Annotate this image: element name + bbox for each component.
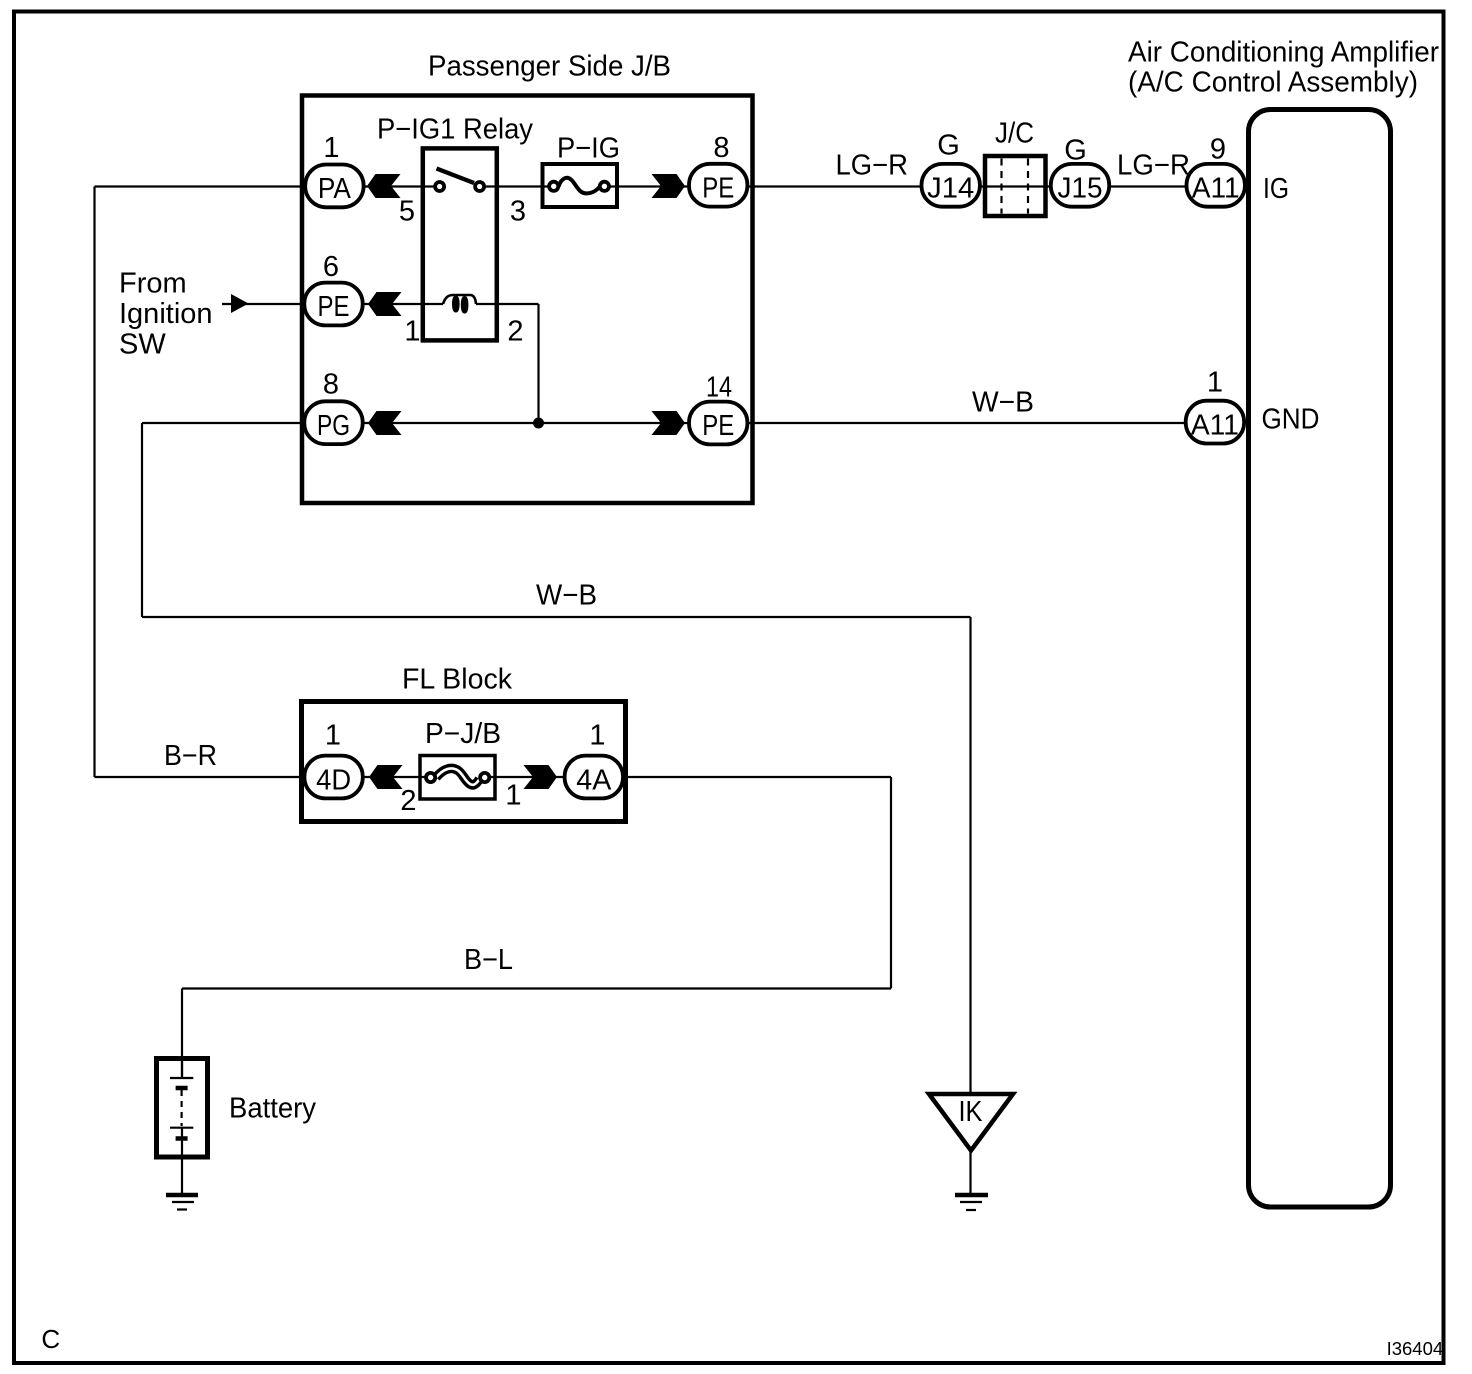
wire fuse P-IG to PE pin8 [608, 185, 690, 187]
svg-text:B−L: B−L [464, 944, 513, 976]
svg-text:1: 1 [589, 720, 605, 752]
IK ground symbol [955, 1193, 988, 1198]
wire B-R net: PA pin1 left, down left side, to FL block 4D [95, 187, 321, 778]
wire from ignition SW to PE pin6 [222, 303, 310, 305]
battery cell plates [170, 1059, 193, 1079]
J/C dashed internals [1002, 159, 1029, 214]
svg-text:LG−R: LG−R [836, 150, 909, 182]
svg-text:14: 14 [706, 372, 732, 404]
relay P-IG1 box [423, 148, 497, 340]
svg-text:J/C: J/C [995, 118, 1034, 150]
connector oval 4A pin1 [565, 756, 623, 799]
svg-text:A11: A11 [1192, 173, 1240, 205]
wire LG-R: PE pin8 to J14 [748, 185, 925, 187]
svg-text:LG−R: LG−R [1117, 150, 1190, 182]
svg-text:PE: PE [318, 291, 350, 323]
svg-text:3: 3 [510, 196, 526, 228]
svg-text:A11: A11 [1191, 410, 1239, 442]
fusible link P-J/B element ribbon [436, 768, 480, 784]
svg-text:1: 1 [505, 780, 521, 812]
fuse P-IG box [543, 164, 618, 207]
wire B-L: 4A right, down, left to battery [182, 777, 891, 1078]
svg-text:P−J/B: P−J/B [425, 718, 501, 750]
svg-text:SW: SW [119, 329, 166, 361]
wire through J/C: J14 to J15 [980, 185, 1052, 187]
svg-text:4A: 4A [576, 765, 612, 797]
svg-text:9: 9 [1210, 134, 1226, 166]
wire PG to PE pin14 [363, 422, 688, 424]
svg-text:From: From [119, 268, 187, 300]
wire PG pin8 left, down to W-B row [142, 423, 310, 617]
wire W-B net to IK ground [142, 617, 971, 1096]
battery ground symbol [166, 1193, 198, 1198]
wire 4D to P-J/B fuse [362, 776, 428, 778]
arrow into 4A (right-pointing) [524, 765, 558, 789]
wire PE pin6 to relay coil pin1 [363, 303, 443, 305]
junction connector J/C box [985, 156, 1046, 216]
svg-text:J14: J14 [927, 173, 974, 205]
svg-text:Passenger Side J/B: Passenger Side J/B [428, 51, 671, 83]
svg-text:1: 1 [325, 720, 341, 752]
svg-text:P−IG: P−IG [557, 133, 620, 165]
svg-text:GND: GND [1262, 403, 1320, 435]
connector oval PE pin6 [304, 283, 362, 326]
svg-text:1: 1 [404, 316, 420, 348]
svg-text:4D: 4D [316, 765, 351, 797]
connector oval PG pin8 [304, 401, 362, 444]
svg-text:G: G [1064, 135, 1087, 167]
svg-text:P−IG1 Relay: P−IG1 Relay [377, 114, 533, 146]
svg-text:1: 1 [1207, 367, 1223, 399]
wire main IG row: PA to relay switch [365, 185, 435, 187]
wire relay pin3 to fuse P-IG [484, 185, 550, 187]
svg-text:W−B: W−B [972, 387, 1034, 419]
fuse P-IG element [559, 178, 600, 194]
svg-text:Battery: Battery [229, 1093, 316, 1125]
FL Block box [302, 702, 626, 822]
wire W-B: PE pin14 to A11 pin1 GND [748, 422, 1187, 424]
svg-text:2: 2 [507, 316, 523, 348]
connector oval 4D pin1 [304, 756, 362, 799]
svg-text:6: 6 [323, 251, 339, 283]
connector oval PA pin1 [305, 165, 363, 208]
svg-text:C: C [41, 1324, 60, 1354]
connector oval A11 pin9 [1187, 164, 1245, 207]
battery box [157, 1059, 208, 1158]
connector oval J14 [922, 164, 980, 207]
relay coil [443, 295, 476, 304]
relay switch contacts and lever [437, 169, 475, 184]
arrow into PA (left-pointing) [367, 174, 401, 198]
arrow into PE pin6 (left-pointing) [368, 292, 402, 316]
svg-text:G: G [937, 130, 960, 162]
wire battery negative to ground [181, 1138, 183, 1193]
svg-text:(A/C Control Assembly): (A/C Control Assembly) [1128, 67, 1418, 99]
svg-text:I36404: I36404 [1387, 1338, 1444, 1359]
wire relay coil pin2 down to junction [476, 304, 539, 423]
arrow into PG (left-pointing) [368, 411, 402, 435]
fusible link P-J/B box [420, 756, 495, 800]
Air Conditioning Amplifier box [1249, 110, 1391, 1208]
svg-text:2: 2 [400, 785, 416, 817]
IK ground triangle [929, 1094, 1013, 1151]
arrow into 4D (left-pointing) [369, 765, 403, 789]
svg-text:J15: J15 [1058, 173, 1103, 205]
arrow into PE pin8 (right-pointing) [652, 174, 686, 198]
svg-text:Air Conditioning Amplifier: Air Conditioning Amplifier [1128, 37, 1439, 69]
svg-text:PE: PE [702, 410, 734, 442]
connector oval PE pin14 [689, 402, 747, 445]
svg-text:5: 5 [399, 196, 415, 228]
Passenger Side J/B box [302, 96, 753, 504]
connector oval PE pin8 [689, 164, 747, 207]
svg-text:FL Block: FL Block [402, 664, 512, 696]
svg-text:B−R: B−R [164, 740, 217, 772]
svg-text:PG: PG [317, 410, 350, 442]
svg-text:8: 8 [713, 132, 729, 164]
svg-text:PE: PE [702, 173, 734, 205]
svg-text:8: 8 [323, 369, 339, 401]
arrow into PE pin14 (right-pointing) [652, 411, 686, 435]
svg-text:Ignition: Ignition [119, 298, 213, 330]
junction node dot [533, 418, 544, 429]
connector oval J15 [1051, 164, 1109, 207]
wire IK to ground [969, 1149, 971, 1193]
arrow from ignition SW (small triangle) [231, 294, 249, 313]
wire LG-R: J15 to A11 pin9 [1110, 185, 1187, 187]
svg-text:1: 1 [323, 132, 339, 164]
svg-text:IG: IG [1263, 173, 1289, 205]
wire P-J/B fuse to 4A [487, 776, 567, 778]
svg-text:W−B: W−B [536, 580, 597, 612]
svg-text:IK: IK [959, 1096, 984, 1128]
connector oval A11 pin1 [1186, 401, 1244, 444]
svg-text:PA: PA [318, 173, 352, 205]
